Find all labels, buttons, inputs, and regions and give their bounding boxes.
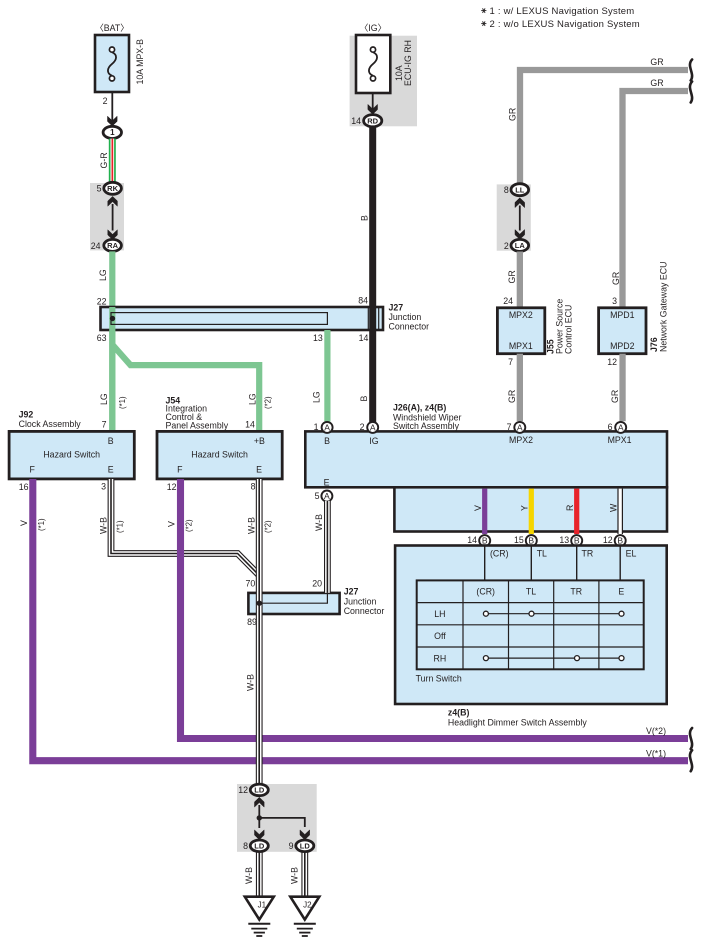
svg-text:B: B — [324, 436, 330, 446]
ground J2 — [290, 897, 319, 936]
turn switch label — [416, 674, 462, 684]
svg-text:(*2): (*2) — [264, 520, 273, 533]
svg-text:1: 1 — [110, 128, 115, 137]
svg-text:Connector: Connector — [344, 606, 385, 616]
svg-text:A: A — [324, 491, 330, 501]
svg-text:24: 24 — [503, 296, 513, 306]
arrow into RD — [368, 104, 378, 114]
wire Y (yellow) in box — [520, 489, 534, 534]
svg-text:GR: GR — [611, 272, 621, 285]
svg-text:EL: EL — [626, 549, 637, 559]
svg-text:MPD2: MPD2 — [610, 341, 635, 351]
svg-text:Clock Assembly: Clock Assembly — [19, 419, 82, 429]
svg-text:W-B: W-B — [290, 867, 300, 884]
wire G-R (green/red) — [99, 139, 116, 185]
svg-text:Y: Y — [520, 505, 530, 511]
turn switch RH contacts — [483, 656, 624, 661]
connector block LD (gray) — [237, 784, 317, 852]
connector oval RK — [104, 182, 122, 194]
wire fuse to connector 1 — [111, 92, 113, 122]
svg-text:Headlight Dimmer Switch Assemb: Headlight Dimmer Switch Assembly — [448, 717, 587, 727]
component J92 Clock Assembly title — [19, 410, 82, 430]
pin 13 label — [313, 333, 323, 343]
svg-text:V(*2): V(*2) — [646, 726, 666, 736]
pin 14 label RD — [351, 116, 361, 126]
svg-text:(CR): (CR) — [476, 587, 495, 597]
svg-text:63: 63 — [97, 333, 107, 343]
pin 89 label — [247, 617, 257, 627]
wire R (red) in box — [565, 489, 579, 534]
hazard switch J92 — [9, 431, 134, 479]
svg-text:Hazard Switch: Hazard Switch — [191, 449, 248, 459]
svg-text:LH: LH — [434, 609, 445, 619]
pin 70 label — [246, 579, 256, 589]
inner bus of lower J27 — [257, 593, 328, 606]
svg-text:Connector: Connector — [389, 322, 430, 332]
svg-text:E: E — [618, 587, 624, 597]
wires W-B (outlined white, black stripe) — [259, 479, 327, 898]
pin 3 label J76 — [612, 296, 617, 306]
arrow down to LD 9 — [300, 830, 310, 840]
svg-text:J27: J27 — [389, 303, 404, 313]
svg-text:14: 14 — [467, 535, 477, 545]
svg-text:1: 1 — [314, 422, 319, 432]
svg-text:Turn Switch: Turn Switch — [416, 674, 462, 684]
svg-text:MPX2: MPX2 — [509, 310, 533, 320]
svg-text:13: 13 — [559, 535, 569, 545]
pin 13 label B — [559, 535, 569, 545]
svg-text:24: 24 — [91, 241, 101, 251]
pin 2 label — [360, 422, 365, 432]
svg-text:LG: LG — [311, 391, 321, 403]
legend note 2 (w/o LEXUS Navigation System) — [481, 19, 640, 30]
svg-text:W-B: W-B — [314, 514, 324, 531]
svg-text:Hazard Switch: Hazard Switch — [43, 449, 100, 459]
svg-text:LD: LD — [254, 786, 265, 795]
pin 12 label J76 — [607, 357, 617, 367]
wire W (white) in box — [608, 489, 623, 534]
fuse 10A ECU-IG RH (IG) — [356, 23, 413, 93]
wire B (black) RD to J26 IG — [359, 127, 376, 432]
pin circle 14 B — [479, 535, 490, 546]
connector oval 1 — [103, 126, 121, 138]
svg-text:V: V — [167, 521, 177, 527]
pin 84 label — [358, 296, 368, 306]
wire V (purple) in box — [473, 489, 487, 534]
svg-text:Junction: Junction — [344, 596, 377, 606]
svg-text:12: 12 — [603, 535, 613, 545]
break symbol GR1 — [690, 60, 692, 81]
svg-text:5: 5 — [315, 491, 320, 501]
svg-text:+B: +B — [254, 436, 265, 446]
svg-text:F: F — [30, 465, 36, 475]
svg-text:(CR): (CR) — [490, 549, 509, 559]
pin 2 of fuse MPX-B — [103, 96, 108, 106]
stub TL — [531, 546, 547, 581]
svg-text:GR: GR — [610, 390, 620, 403]
svg-text:IG: IG — [369, 436, 378, 446]
svg-text:20: 20 — [312, 579, 322, 589]
pin circle 15 B — [526, 535, 537, 546]
svg-text:MPD1: MPD1 — [610, 310, 635, 320]
ECU J55 Power Source Control ECU — [497, 299, 573, 354]
svg-text:GR: GR — [650, 78, 663, 88]
svg-text:LA: LA — [515, 241, 526, 250]
pin 24 label — [91, 241, 101, 251]
connector oval LA — [511, 239, 529, 251]
svg-text:7: 7 — [507, 422, 512, 432]
wire GR J76 to J26 MPX1 — [610, 354, 626, 422]
svg-text:12: 12 — [607, 357, 617, 367]
connector block LL/LA (gray) — [497, 184, 531, 250]
svg-text:(*2): (*2) — [264, 396, 273, 409]
svg-text:RA: RA — [107, 241, 118, 250]
svg-text:〈IG〉: 〈IG〉 — [360, 23, 387, 33]
svg-text:14: 14 — [359, 333, 369, 343]
svg-text:W-B: W-B — [244, 867, 254, 884]
pin 9 label LD — [289, 841, 294, 851]
svg-text:MPX2: MPX2 — [509, 435, 533, 445]
ground J1 — [245, 897, 274, 936]
wire LG pin 63 to J92 B — [109, 330, 115, 432]
svg-text:LL: LL — [515, 185, 525, 194]
pin circle 7 A — [514, 422, 525, 433]
connector oval RD — [364, 115, 382, 127]
wire labels W-B — [99, 482, 324, 692]
pin 12 label LD — [238, 785, 248, 795]
stub (CR) — [485, 546, 509, 581]
svg-text:A: A — [517, 423, 523, 433]
junction connector J27 (top) — [101, 307, 384, 330]
pin 1 label — [314, 422, 319, 432]
svg-text:GR: GR — [507, 270, 517, 283]
pin 2 label LA — [504, 241, 509, 251]
svg-text:〈BAT〉: 〈BAT〉 — [95, 23, 129, 33]
stub EL — [620, 546, 636, 581]
svg-text:W: W — [608, 503, 618, 512]
connector oval LL — [511, 184, 529, 196]
svg-text:W-B: W-B — [246, 674, 256, 691]
svg-text:Off: Off — [434, 631, 446, 641]
svg-text:W-B: W-B — [247, 517, 257, 534]
svg-text:14: 14 — [351, 116, 361, 126]
svg-text:3: 3 — [101, 482, 106, 492]
wire GR 2 (to MPX1) — [611, 78, 688, 308]
connector oval LD 9 — [296, 840, 314, 852]
svg-text:F: F — [177, 465, 183, 475]
arrow down to LD 8 — [255, 830, 265, 840]
svg-text:2: 2 — [103, 96, 108, 106]
pin 24 label J55 — [503, 296, 513, 306]
svg-text:12: 12 — [238, 785, 248, 795]
svg-text:GR: GR — [650, 57, 663, 67]
pin 7 label — [507, 422, 512, 432]
svg-text:J27: J27 — [344, 587, 359, 597]
svg-text:J1: J1 — [258, 901, 267, 910]
connector oval LD 12 — [250, 784, 268, 796]
double arrow LL-LA — [515, 198, 525, 240]
svg-text:E: E — [108, 465, 114, 475]
svg-text:Panel Assembly: Panel Assembly — [166, 420, 229, 430]
connector oval LD 8 — [250, 840, 268, 852]
double arrow RK-RA — [108, 196, 118, 239]
stub TR — [577, 546, 594, 581]
svg-text:GR: GR — [507, 390, 517, 403]
hazard switch J54 — [157, 431, 282, 479]
svg-text:Junction: Junction — [389, 312, 422, 322]
svg-text:(*2): (*2) — [185, 519, 194, 532]
svg-text:A: A — [618, 423, 624, 433]
pin 5 label — [315, 491, 320, 501]
svg-text:16: 16 — [19, 482, 29, 492]
pin circle 1 A — [322, 422, 333, 433]
svg-text:Switch Assembly: Switch Assembly — [393, 421, 460, 431]
svg-text:89: 89 — [247, 617, 257, 627]
pin circle 6 A — [615, 422, 626, 433]
fuse 10A MPX-B (BAT) — [95, 23, 145, 92]
svg-text:TL: TL — [537, 549, 547, 559]
pin 6 label — [608, 422, 613, 432]
svg-text:(*1): (*1) — [37, 518, 46, 531]
svg-text:MPX1: MPX1 — [509, 341, 533, 351]
z4(B) title — [448, 707, 587, 727]
svg-text:2: 2 — [504, 241, 509, 251]
svg-text:84: 84 — [358, 296, 368, 306]
svg-text:J76: J76 — [649, 337, 659, 352]
wire and junction in LD block — [257, 805, 305, 828]
svg-text:(*1): (*1) — [116, 520, 125, 533]
svg-text:TR: TR — [582, 549, 594, 559]
svg-text:1 : w/ LEXUS Navigation System: 1 : w/ LEXUS Navigation System — [490, 6, 635, 17]
break symbol GR2 — [690, 82, 692, 103]
svg-text:9: 9 — [289, 841, 294, 851]
connector oval RA — [104, 239, 122, 251]
pin 8 label LL — [504, 185, 509, 195]
svg-text:z4(B): z4(B) — [448, 707, 470, 717]
wire LG branch to J54 +B — [99, 345, 273, 432]
turn switch LH contacts — [483, 611, 624, 616]
pin circle 2 A — [367, 422, 378, 433]
svg-text:V(*1): V(*1) — [646, 748, 666, 758]
svg-text:15: 15 — [514, 535, 524, 545]
J27 lower labels — [344, 587, 385, 617]
svg-text:7: 7 — [508, 357, 513, 367]
svg-text:ECU-IG RH: ECU-IG RH — [403, 40, 413, 86]
pin 14 label (J27 bottom) — [359, 333, 369, 343]
svg-text:(*1): (*1) — [118, 396, 127, 409]
svg-text:G-R: G-R — [99, 152, 109, 168]
switch assembly lower section — [394, 487, 667, 531]
svg-text:B: B — [108, 436, 114, 446]
pin 7 label J92 — [102, 420, 107, 430]
svg-text:RK: RK — [107, 184, 118, 193]
svg-text:RD: RD — [367, 116, 378, 125]
pin 63 label — [97, 333, 107, 343]
pin 7 label J55 — [508, 357, 513, 367]
svg-text:MPX1: MPX1 — [608, 435, 632, 445]
wire LG through J27 — [109, 307, 115, 330]
svg-text:E: E — [256, 465, 262, 475]
wire W-B from J92 E to junction — [111, 479, 259, 575]
svg-text:J92: J92 — [19, 410, 34, 420]
svg-text:E: E — [324, 477, 330, 487]
pin circle 12 B — [615, 535, 626, 546]
switch z4(B) box — [395, 546, 667, 705]
svg-text:RH: RH — [434, 653, 447, 663]
svg-text:70: 70 — [246, 579, 256, 589]
wire LG pin 13 to J26 pin 1 — [311, 330, 330, 422]
svg-text:V: V — [19, 520, 29, 526]
svg-text:13: 13 — [313, 333, 323, 343]
svg-text:V: V — [473, 505, 483, 511]
svg-text:2: 2 — [360, 422, 365, 432]
svg-text:LD: LD — [300, 841, 311, 850]
svg-text:5: 5 — [97, 184, 102, 194]
pin 15 label B — [514, 535, 524, 545]
wire V(*1) from J92 F — [19, 479, 688, 761]
svg-text:A: A — [324, 423, 330, 433]
svg-text:LG: LG — [99, 393, 109, 405]
fuse 10A ECU-IG RH (IG) gray block — [350, 36, 417, 127]
svg-text:B: B — [359, 396, 369, 402]
svg-text:TR: TR — [570, 587, 582, 597]
svg-text:LD: LD — [254, 841, 265, 850]
wire V(*2) from J54 F — [167, 479, 689, 739]
wire GR J55 to J26 MPX2 — [507, 354, 523, 422]
svg-text:GR: GR — [508, 108, 518, 121]
connector block RK/RA (gray) — [90, 183, 124, 250]
svg-text:22: 22 — [97, 297, 107, 307]
svg-text:8: 8 — [504, 185, 509, 195]
svg-text:W-B: W-B — [99, 517, 109, 534]
svg-text:7: 7 — [102, 420, 107, 430]
svg-text:Network Gateway ECU: Network Gateway ECU — [659, 262, 669, 352]
turn switch table — [417, 580, 644, 669]
W-B labels at grounds — [244, 867, 300, 884]
svg-text:J26(A), z4(B): J26(A), z4(B) — [393, 403, 446, 413]
wire fuse IG down — [372, 93, 374, 110]
svg-text:Control ECU: Control ECU — [564, 305, 574, 354]
ECU J76 Network Gateway ECU — [599, 262, 669, 354]
junction connector J27 (lower) — [248, 593, 339, 614]
pin 22 label — [97, 297, 107, 307]
svg-text:14: 14 — [245, 420, 255, 430]
svg-text:LG: LG — [247, 393, 257, 405]
component J54 title — [166, 395, 229, 430]
pin 14 label J54 — [245, 420, 255, 430]
wire GR 1 (to MPX2) — [508, 57, 688, 185]
break symbol V1 — [690, 750, 692, 771]
svg-text:8: 8 — [243, 841, 248, 851]
pin 14 label B — [467, 535, 477, 545]
pin circle 5 A — [321, 491, 332, 502]
svg-text:LG: LG — [98, 269, 108, 281]
component J26(A) z4(B) title — [393, 403, 462, 431]
svg-text:TL: TL — [526, 587, 536, 597]
svg-text:R: R — [565, 505, 575, 511]
svg-text:8: 8 — [251, 482, 256, 492]
svg-text:2 : w/o LEXUS Navigation Syste: 2 : w/o LEXUS Navigation System — [490, 19, 640, 30]
J27 top labels — [389, 303, 430, 332]
legend note 1 (w/ LEXUS Navigation System) — [481, 6, 634, 17]
break symbol V2 — [690, 728, 692, 749]
inner bus of J27 — [110, 313, 328, 325]
wire LG from RA to J92 pin 7 — [98, 251, 115, 431]
pin circle 13 B — [571, 535, 582, 546]
switch assembly J26 main box — [305, 431, 667, 487]
arrow into connector 1 — [108, 116, 118, 126]
svg-text:3: 3 — [612, 296, 617, 306]
pin 8 label LD — [243, 841, 248, 851]
pin 5 label — [97, 184, 102, 194]
svg-text:10A MPX-B: 10A MPX-B — [135, 39, 145, 85]
wire GR LA to J55 — [507, 252, 523, 308]
pin 12 label B — [603, 535, 613, 545]
svg-text:J2: J2 — [303, 901, 312, 910]
svg-text:12: 12 — [167, 482, 177, 492]
pin 20 label — [312, 579, 322, 589]
svg-text:B: B — [360, 215, 370, 221]
svg-text:6: 6 — [608, 422, 613, 432]
svg-text:A: A — [370, 423, 376, 433]
arrow up to LD 12 — [255, 797, 265, 807]
